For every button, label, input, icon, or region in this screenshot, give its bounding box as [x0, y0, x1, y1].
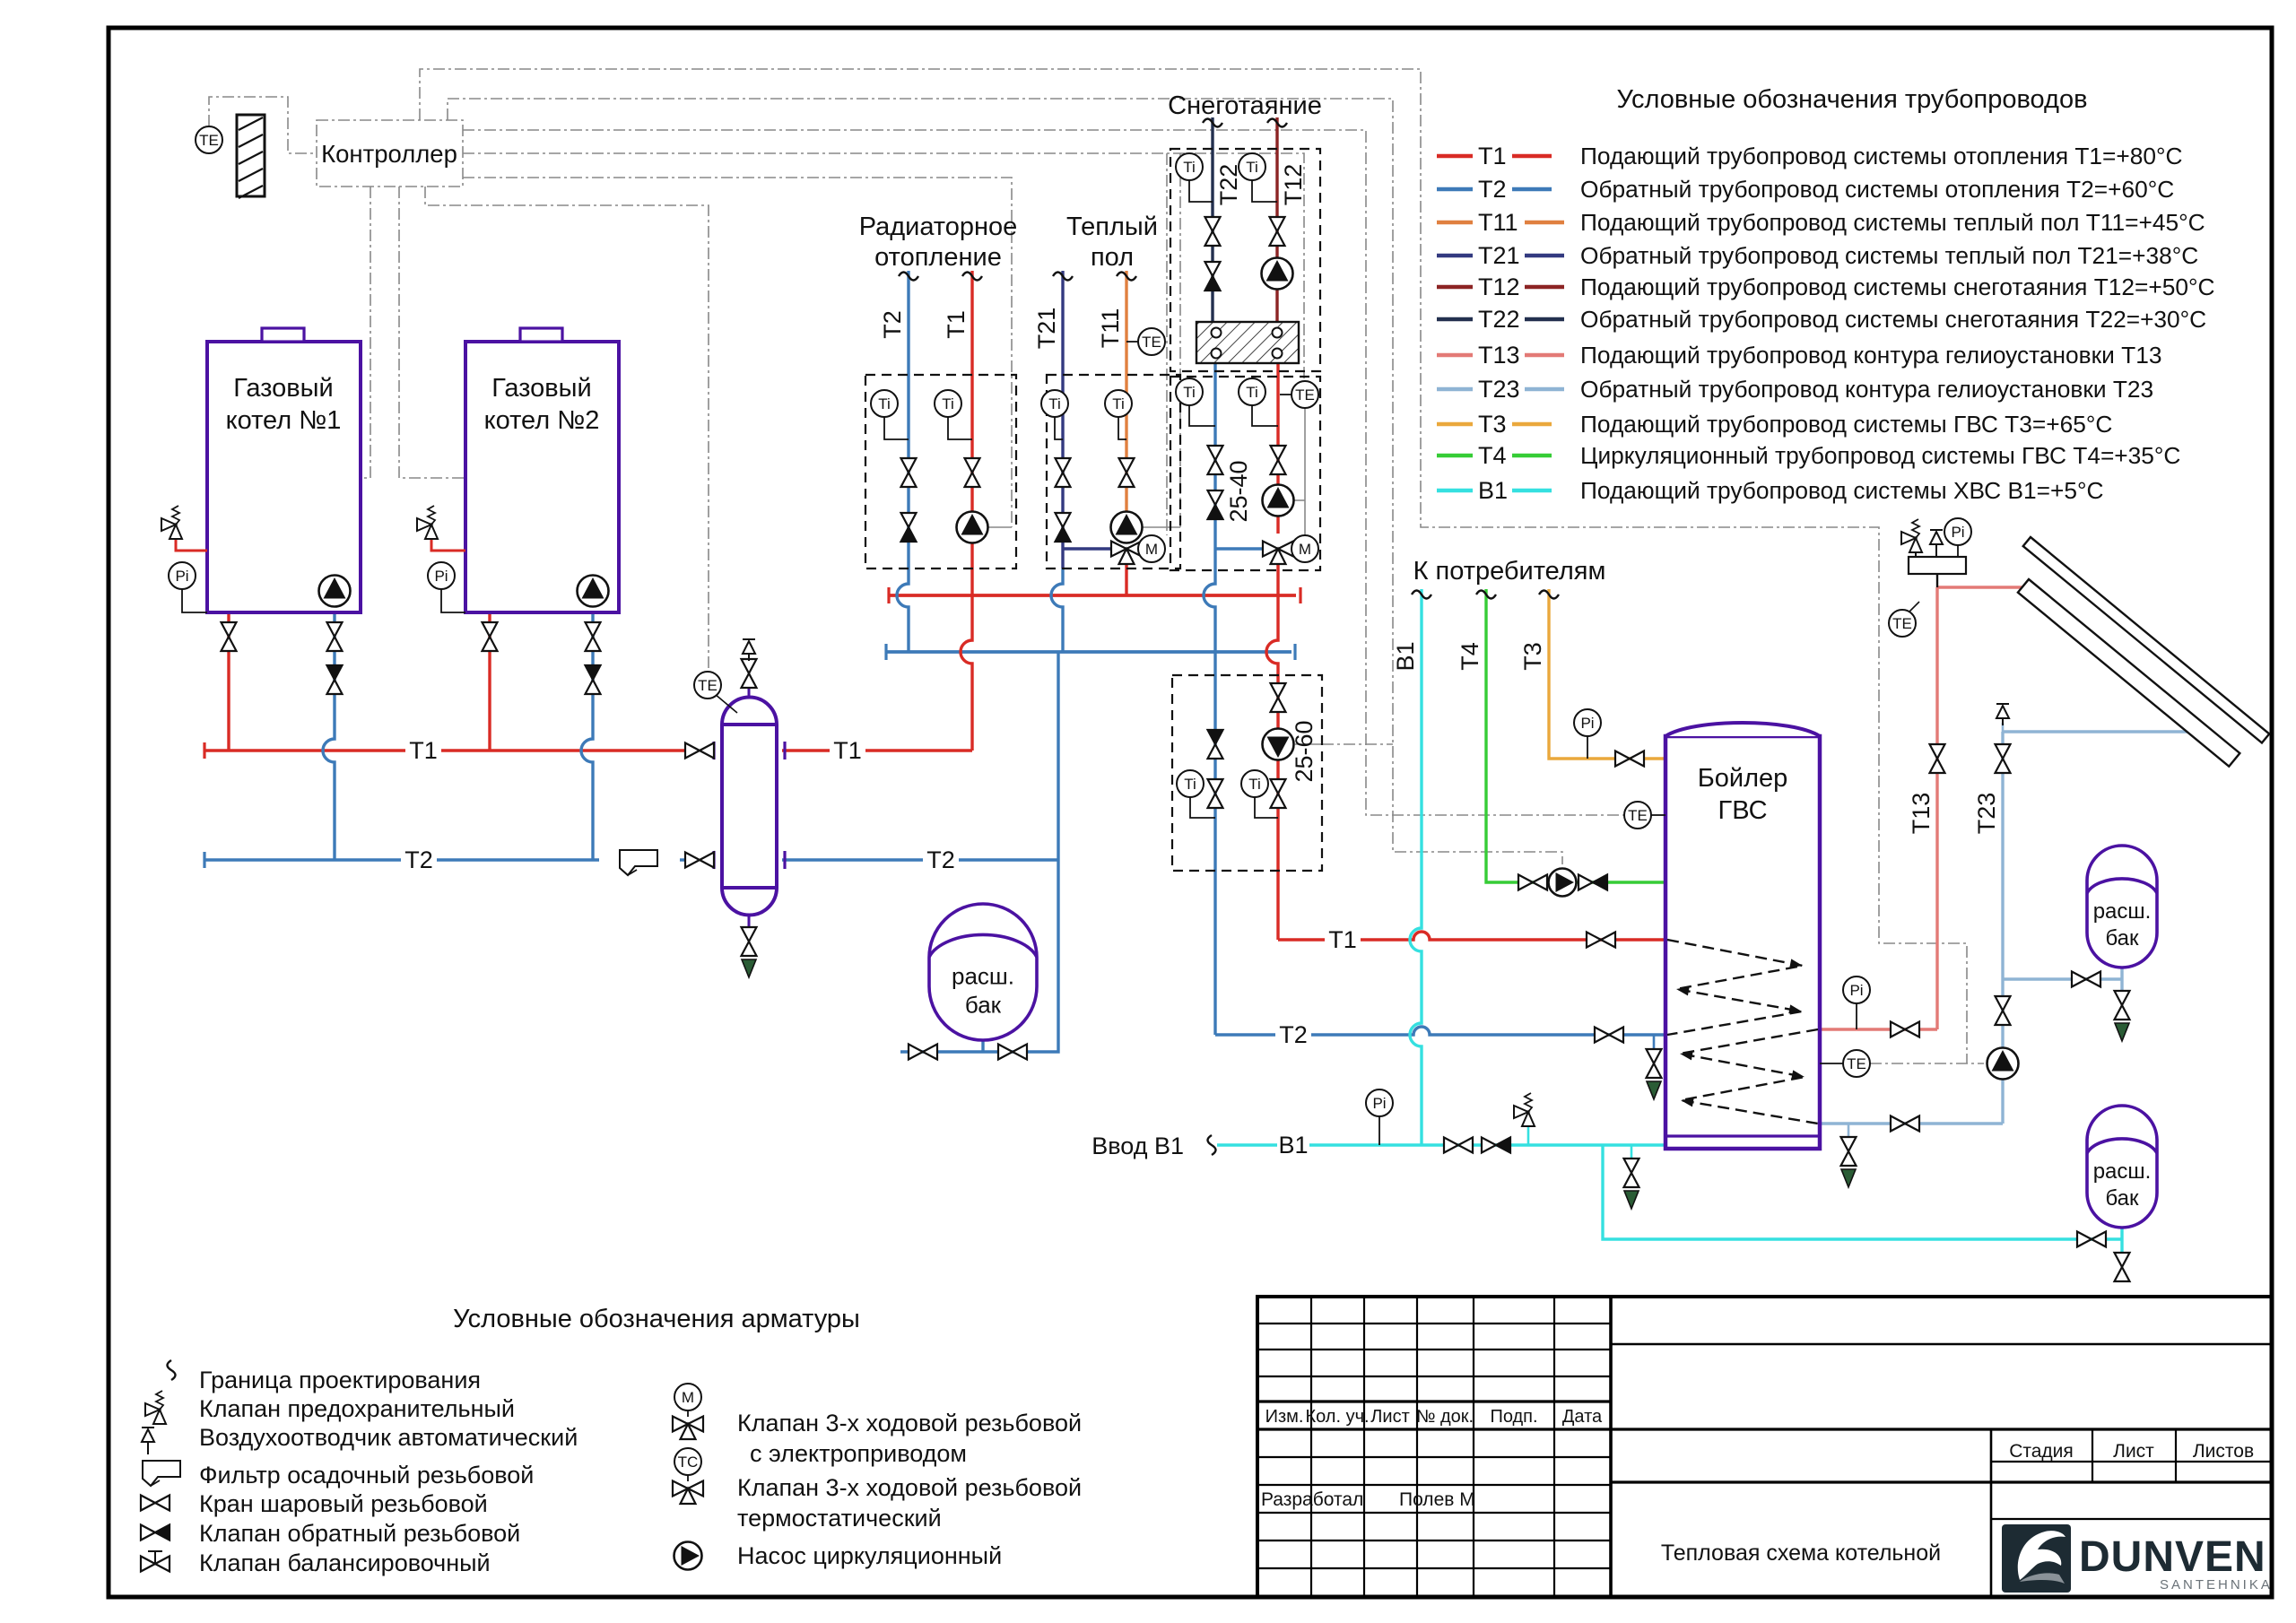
svg-text:Условные обозначения трубопров: Условные обозначения трубопроводов: [1616, 85, 2087, 114]
svg-text:Ti: Ti: [1246, 159, 1258, 176]
svg-text:Условные обозначения арматуры: Условные обозначения арматуры: [453, 1305, 860, 1333]
svg-text:Т4: Т4: [1478, 442, 1507, 469]
svg-text:Т2: Т2: [1478, 176, 1507, 203]
svg-text:Т4: Т4: [1457, 642, 1483, 671]
svg-text:Ti: Ti: [1048, 395, 1061, 412]
svg-text:Воздухоотводчик автоматический: Воздухоотводчик автоматический: [199, 1424, 578, 1451]
svg-text:Ti: Ti: [1246, 384, 1258, 401]
svg-text:М: М: [1145, 541, 1158, 558]
svg-text:Ввод В1: Ввод В1: [1091, 1133, 1184, 1159]
svg-text:Т21: Т21: [1033, 308, 1060, 350]
svg-text:Подающий трубопровод системы о: Подающий трубопровод системы отопления Т…: [1580, 143, 2183, 169]
svg-text:ТС: ТС: [678, 1454, 699, 1471]
svg-text:пол: пол: [1091, 243, 1134, 272]
svg-text:расш.: расш.: [2093, 899, 2152, 924]
svg-text:Подающий трубопровод системы Х: Подающий трубопровод системы ХВС В1=+5°С: [1580, 477, 2104, 504]
svg-text:Т1: Т1: [409, 737, 438, 764]
svg-text:Клапан предохранительный: Клапан предохранительный: [199, 1395, 515, 1422]
svg-text:ТЕ: ТЕ: [1295, 386, 1315, 404]
svg-text:Т1: Т1: [833, 737, 862, 764]
svg-text:Pi: Pi: [1580, 715, 1594, 732]
svg-text:расш.: расш.: [2093, 1159, 2152, 1184]
svg-text:Контроллер: Контроллер: [321, 140, 457, 168]
svg-text:бак: бак: [2105, 1186, 2139, 1211]
svg-text:Т2: Т2: [879, 310, 906, 339]
svg-text:Подающий трубопровод контура г: Подающий трубопровод контура гелиоустано…: [1580, 342, 2161, 369]
svg-text:Фильтр осадочный резьбовой: Фильтр осадочный резьбовой: [199, 1462, 534, 1488]
svg-text:Обратный трубопровод системы о: Обратный трубопровод системы отопления Т…: [1580, 176, 2174, 203]
svg-text:Стадия: Стадия: [2009, 1441, 2074, 1462]
svg-text:Обратный трубопровод системы с: Обратный трубопровод системы снеготаяния…: [1580, 306, 2206, 333]
svg-text:расш.: расш.: [952, 962, 1014, 989]
svg-text:В1: В1: [1278, 1132, 1308, 1159]
svg-text:Лист: Лист: [2113, 1441, 2154, 1462]
svg-text:В1: В1: [1392, 641, 1419, 671]
svg-text:Клапан 3-х ходовой резьбовой: Клапан 3-х ходовой резьбовой: [737, 1410, 1082, 1436]
svg-text:25-40: 25-40: [1225, 460, 1252, 522]
svg-text:термостатический: термостатический: [737, 1505, 942, 1532]
svg-text:Т1: Т1: [1478, 143, 1507, 169]
svg-text:Снеготаяние: Снеготаяние: [1168, 91, 1322, 120]
svg-text:ТЕ: ТЕ: [1892, 615, 1912, 632]
svg-text:DUΝVEΝ: DUΝVEΝ: [2079, 1533, 2266, 1581]
svg-text:М: М: [682, 1389, 694, 1406]
svg-text:Ti: Ti: [1183, 159, 1196, 176]
svg-text:Т21: Т21: [1478, 242, 1520, 269]
svg-text:Pi: Pi: [1372, 1095, 1386, 1112]
svg-text:Т13: Т13: [1478, 342, 1520, 369]
svg-text:Газовый: Газовый: [491, 374, 591, 403]
svg-text:Дата: Дата: [1562, 1407, 1603, 1427]
svg-text:Т23: Т23: [1478, 376, 1520, 403]
svg-text:Насос циркуляционный: Насос циркуляционный: [737, 1542, 1002, 1569]
svg-text:Листов: Листов: [2193, 1441, 2254, 1462]
svg-text:Т1: Т1: [943, 310, 970, 339]
svg-text:Кран шаровый резьбовой: Кран шаровый резьбовой: [199, 1490, 488, 1517]
svg-text:Подп.: Подп.: [1490, 1407, 1537, 1427]
svg-text:Т1: Т1: [1328, 926, 1357, 953]
svg-text:Т12: Т12: [1280, 164, 1307, 206]
svg-text:Полев М: Полев М: [1399, 1489, 1475, 1510]
svg-text:отопление: отопление: [874, 243, 1002, 272]
svg-text:ТЕ: ТЕ: [698, 677, 717, 694]
svg-text:SANTEHNIKA: SANTEHNIKA: [2160, 1577, 2273, 1593]
svg-text:Обратный трубопровод системы т: Обратный трубопровод системы теплый пол …: [1580, 242, 2198, 269]
svg-text:Клапан 3-х ходовой резьбовой: Клапан 3-х ходовой резьбовой: [737, 1474, 1082, 1501]
svg-text:Радиаторное: Радиаторное: [859, 213, 1018, 241]
svg-text:ТЕ: ТЕ: [1628, 807, 1648, 824]
svg-text:Т2: Т2: [1279, 1021, 1308, 1048]
svg-text:К потребителям: К потребителям: [1413, 557, 1606, 586]
svg-text:Газовый: Газовый: [233, 374, 333, 403]
svg-text:Ti: Ti: [1183, 384, 1196, 401]
svg-text:Подающий трубопровод системы т: Подающий трубопровод системы теплый пол …: [1580, 209, 2205, 236]
svg-text:№ док.: № док.: [1416, 1407, 1474, 1427]
svg-text:Т22: Т22: [1215, 164, 1242, 206]
svg-text:Теплый: Теплый: [1066, 213, 1158, 241]
svg-text:Т23: Т23: [1973, 793, 2000, 835]
svg-text:Клапан обратный резьбовой: Клапан обратный резьбовой: [199, 1520, 520, 1547]
svg-text:Кол. уч.: Кол. уч.: [1305, 1407, 1369, 1427]
svg-text:с электроприводом: с электроприводом: [750, 1440, 967, 1467]
svg-text:котел №1: котел №1: [226, 406, 342, 435]
svg-text:Лист: Лист: [1370, 1407, 1409, 1427]
svg-text:ГВС: ГВС: [1718, 796, 1767, 825]
svg-text:Т2: Т2: [926, 846, 955, 873]
svg-text:Т3: Т3: [1519, 642, 1546, 671]
svg-text:Т13: Т13: [1908, 793, 1935, 835]
svg-text:ТЕ: ТЕ: [1847, 1055, 1866, 1072]
svg-text:Ti: Ti: [1248, 776, 1261, 793]
svg-text:Т11: Т11: [1478, 209, 1518, 236]
svg-text:Pi: Pi: [1849, 982, 1863, 999]
svg-text:ТЕ: ТЕ: [199, 132, 219, 149]
svg-text:Изм.: Изм.: [1265, 1407, 1304, 1427]
svg-text:В1: В1: [1478, 477, 1508, 504]
svg-text:Клапан балансировочный: Клапан балансировочный: [199, 1549, 491, 1576]
svg-text:Разработал: Разработал: [1261, 1489, 1363, 1510]
svg-text:М: М: [1299, 541, 1311, 558]
svg-text:25-60: 25-60: [1291, 720, 1318, 782]
svg-text:Т3: Т3: [1478, 411, 1507, 438]
svg-text:Циркуляционный трубопровод сис: Циркуляционный трубопровод системы ГВС Т…: [1580, 442, 2180, 469]
svg-text:Обратный трубопровод контура г: Обратный трубопровод контура гелиоустано…: [1580, 376, 2153, 403]
svg-text:Pi: Pi: [1951, 524, 1964, 541]
svg-text:Т12: Т12: [1478, 273, 1520, 300]
svg-text:Ti: Ti: [1112, 395, 1125, 412]
svg-text:Pi: Pi: [175, 568, 188, 585]
svg-text:Т11: Т11: [1097, 308, 1124, 349]
svg-text:Тепловая схема котельной: Тепловая схема котельной: [1661, 1541, 1941, 1566]
svg-text:Подающий трубопровод системы с: Подающий трубопровод системы снеготаяния…: [1580, 273, 2215, 300]
svg-text:Бойлер: Бойлер: [1698, 764, 1788, 793]
svg-text:Граница проектирования: Граница проектирования: [199, 1367, 481, 1393]
svg-text:Ti: Ti: [1184, 776, 1196, 793]
svg-text:Т2: Т2: [404, 846, 433, 873]
svg-text:Ti: Ti: [878, 395, 891, 412]
svg-text:бак: бак: [2105, 926, 2139, 950]
svg-text:Подающий трубопровод системы Г: Подающий трубопровод системы ГВС Т3=+65°…: [1580, 411, 2112, 438]
svg-text:бак: бак: [965, 991, 1002, 1018]
svg-text:ТЕ: ТЕ: [1142, 334, 1161, 351]
svg-text:Т22: Т22: [1478, 306, 1520, 333]
svg-text:котел №2: котел №2: [484, 406, 600, 435]
svg-text:Ti: Ti: [942, 395, 954, 412]
svg-text:Pi: Pi: [434, 568, 448, 585]
